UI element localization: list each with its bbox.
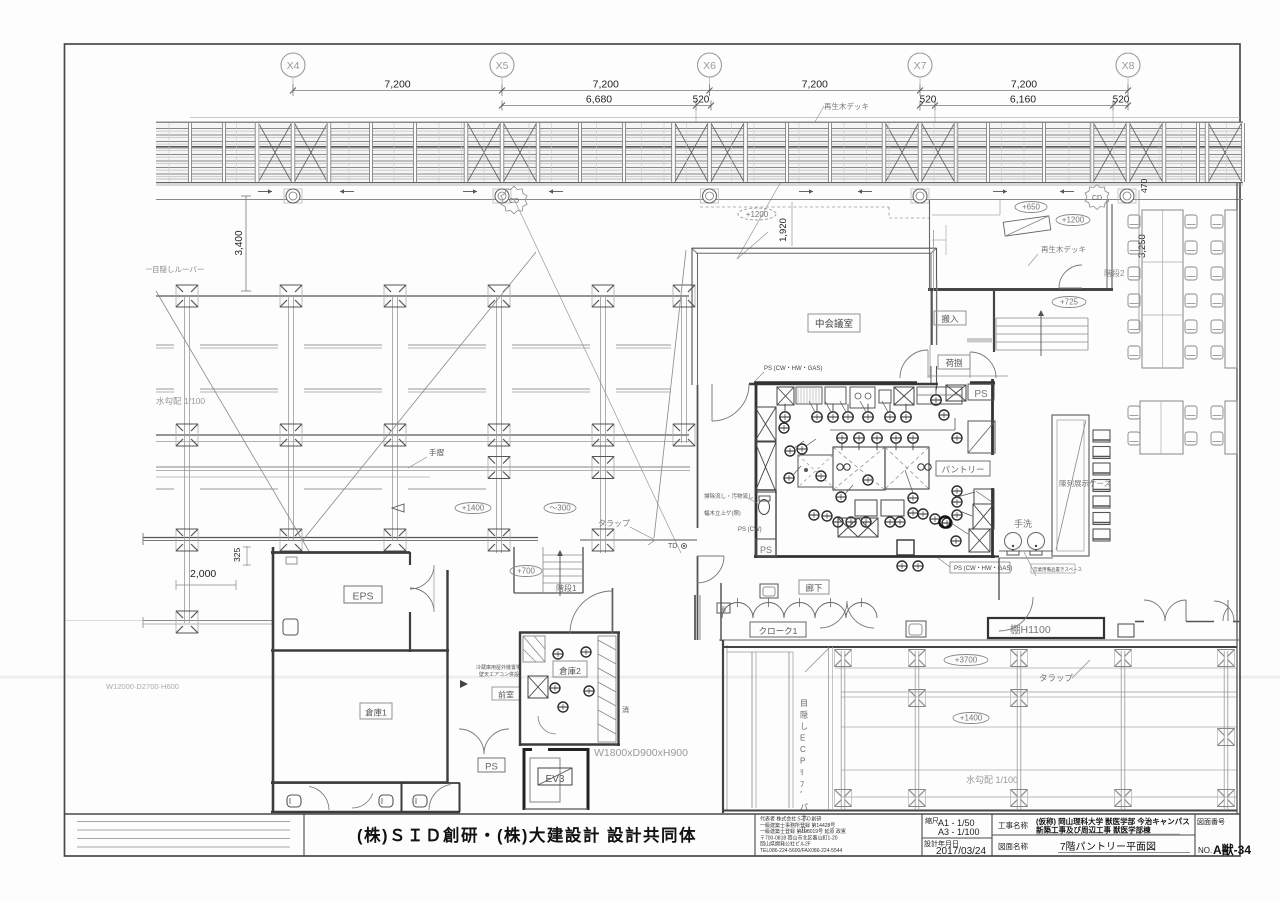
svg-text:3,400: 3,400 (234, 230, 245, 255)
lower terrace column Q12 (1115, 790, 1132, 807)
equipment symbol E33 (861, 517, 871, 527)
souko1 label (360, 703, 392, 719)
double door right bottom 1 (1144, 600, 1186, 621)
svg-text:+1400: +1400 (462, 504, 485, 513)
terrace column P6 (673, 285, 695, 307)
terrace-ECP boundary line (828, 647, 830, 810)
svg-text:+700: +700 (517, 567, 536, 576)
dimension line 7200 row (290, 85, 1131, 97)
chair R4 (1185, 241, 1197, 254)
pantry right wall upper (991, 379, 994, 455)
reizouko note (476, 664, 521, 678)
svg-text:+1200: +1200 (746, 210, 769, 219)
lower terrace top wall (723, 646, 1237, 648)
svg-text:手摺: 手摺 (429, 447, 444, 457)
chair L5 (1128, 267, 1140, 280)
equipment symbol E40 (897, 561, 907, 571)
drain cloud CD left (501, 186, 527, 214)
corridor wall left of stairs (931, 291, 933, 345)
svg-text:CD: CD (1092, 195, 1102, 202)
dining table T4 halfcol (1225, 401, 1237, 454)
svg-text:水勾配 1/100: 水勾配 1/100 (966, 774, 1018, 785)
corridor door arc bottom (697, 556, 724, 583)
svg-text:NO.: NO. (1198, 846, 1212, 855)
small square EPS (283, 619, 298, 635)
svg-text:PS (CW): PS (CW) (738, 527, 762, 533)
lower terrace column Q3 (1011, 650, 1028, 667)
svg-text:目: 目 (800, 699, 808, 708)
toilet door arc 2 (429, 784, 451, 810)
svg-text:C: C (800, 745, 806, 754)
pantry corridor door arc left (900, 350, 928, 378)
pantry left prep table (798, 455, 833, 487)
urinal U3 (413, 795, 427, 807)
toilet closet walls (756, 490, 776, 556)
pantry left shelving xboxes (755, 407, 776, 441)
zenshitsu label (492, 687, 520, 700)
svg-text:倉庫1: 倉庫1 (365, 708, 387, 718)
kettle pair 2 (918, 464, 931, 470)
chair L11 (1128, 346, 1140, 359)
label saisei deck 2 (1028, 244, 1086, 266)
toilet strip bottom wall (271, 811, 460, 814)
title block inner dividers (992, 834, 1195, 836)
chair T3R22 (1185, 432, 1197, 445)
chair T423 (1211, 406, 1223, 419)
chair R8 (1185, 294, 1197, 307)
chair R10 (1185, 320, 1197, 333)
grid bubble X4 (281, 53, 305, 91)
PS box bottom left (756, 539, 776, 556)
dining table T3 (1140, 401, 1183, 454)
souko1 right wall (446, 570, 448, 783)
souko2 top wall (519, 631, 620, 633)
small arrow mark (460, 680, 468, 688)
oval +725 (1052, 297, 1086, 308)
svg-text:営業用備品置きスペース: 営業用備品置きスペース (1033, 566, 1082, 573)
oval +300 corridor (544, 503, 576, 514)
svg-text:EPS: EPS (352, 591, 373, 603)
right side sink unit (974, 489, 994, 504)
svg-text:廊下: 廊下 (805, 583, 823, 593)
meeting room top wall (692, 248, 937, 253)
svg-text:X4: X4 (287, 60, 300, 72)
EPS label (344, 586, 382, 603)
svg-text:X6: X6 (703, 60, 716, 72)
oval 3700 (944, 655, 988, 666)
svg-text:+650: +650 (1022, 203, 1041, 212)
EPS right wall upper (409, 552, 411, 565)
lower terrace column Q4 (1115, 650, 1132, 667)
equipment symbol E31 (833, 517, 843, 527)
equipment symbol E30 (822, 511, 832, 521)
lower terrace bottom wall (723, 810, 1237, 812)
terrace column P5 (592, 285, 614, 307)
meeting room right wall lower (931, 366, 937, 389)
lower terrace column Q5 (1218, 650, 1235, 667)
terrace column P14 (592, 457, 614, 479)
chair S14 (1211, 241, 1223, 254)
drain cloud CD right (1085, 185, 1109, 210)
pantry label box (936, 461, 990, 476)
svg-text:1,920: 1,920 (778, 218, 789, 242)
svg-text:〜300: 〜300 (549, 504, 571, 513)
pantry corridor door arc right (970, 352, 996, 378)
PS label top right (968, 384, 994, 400)
EPS top wall (271, 551, 410, 554)
box small corridor2 (906, 621, 926, 637)
svg-text:搬入: 搬入 (941, 314, 959, 324)
lower terrace line y770 (841, 769, 1237, 771)
right deck inner lines (932, 200, 1000, 255)
cloak scallops (722, 598, 877, 618)
tana H1100 (988, 618, 1104, 638)
dark box dishwasher (897, 540, 914, 555)
equipment symbol E9 (837, 433, 847, 450)
svg-text:6,160: 6,160 (1010, 94, 1036, 106)
svg-text:E: E (800, 734, 805, 743)
pantry center table 1 (833, 447, 885, 490)
case chair 1 (1093, 430, 1110, 442)
diagonal hatch box right (968, 421, 995, 453)
ECP leader (805, 646, 831, 672)
svg-text:幅木立上ゲ(照): 幅木立上ゲ(照) (704, 509, 741, 517)
pantry equipment row top (777, 387, 962, 408)
souko2 right wall (617, 632, 619, 746)
corridor west wall lower (697, 556, 699, 640)
svg-text:タラップ: タラップ (598, 519, 630, 528)
terrace handrail line (156, 441, 689, 443)
terrace column P7 (176, 424, 198, 446)
right deck room left wall (930, 200, 934, 291)
pantry bottom wall (754, 555, 995, 558)
terrace column P8 (280, 424, 302, 446)
terrace column P13 (488, 457, 510, 479)
arrow left corridor (392, 504, 404, 512)
equipment symbol E20 (863, 475, 873, 485)
svg-text:TEL086-224-5600/FAX086-224-554: TEL086-224-5600/FAX086-224-5544 (760, 848, 843, 854)
meeting room right wall upper (931, 248, 937, 345)
terrace column P10 (488, 424, 510, 446)
range with double X (838, 518, 878, 537)
terrace column P12 (673, 424, 695, 446)
chair L9 (1128, 320, 1140, 333)
chair S15 (1211, 267, 1223, 280)
right xbox 2 (969, 529, 990, 552)
dimension line 6680/520 row (499, 101, 1131, 123)
terrace column P20 (176, 611, 198, 633)
case chair 7 (1093, 529, 1110, 541)
equipment symbol E6 (885, 404, 895, 422)
souko2 circles (553, 649, 563, 659)
round column at grid X6 (701, 189, 719, 203)
souko2 left wall (519, 632, 521, 746)
lower terrace column Q1 (835, 650, 852, 667)
svg-text:7階パントリー平面図: 7階パントリー平面図 (1060, 841, 1156, 853)
equipment symbol E5 (863, 404, 873, 422)
round column at grid X8 (1118, 189, 1136, 203)
dining table T2 halfcol (1225, 210, 1237, 368)
svg-text:ﾌ: ﾌ (800, 780, 804, 789)
svg-text:消: 消 (720, 606, 726, 614)
equipment symbol E34 (885, 517, 895, 527)
drawing number cell (1197, 818, 1251, 857)
hanyu label box (934, 311, 966, 325)
EV3 shaft walls (524, 748, 588, 810)
lower terrace line y727 (841, 726, 1237, 728)
rouka label (799, 580, 829, 594)
PS CW HW GAS top label (754, 366, 822, 382)
equipment symbol E10 (854, 433, 864, 450)
terrace column P11 (592, 424, 614, 446)
lower terrace column Q9 (835, 790, 852, 807)
svg-text:(株)ＳＩＤ創研・(株)大建設計 設計共同体: (株)ＳＩＤ創研・(株)大建設計 設計共同体 (357, 825, 697, 845)
souko2 label (553, 661, 587, 677)
title block top line (65, 813, 1241, 815)
EPS bottom wall (271, 649, 449, 651)
equipment symbol E41 (913, 561, 923, 571)
lower terrace column Q8 (1218, 729, 1235, 746)
terrace bottom line (143, 620, 272, 622)
wall segments between doors (1135, 621, 1144, 623)
EPS double door (410, 565, 434, 612)
svg-text:再生木デッキ: 再生木デッキ (1041, 244, 1086, 254)
meeting room bottom wall (749, 383, 938, 385)
svg-text:X7: X7 (914, 60, 927, 72)
terrace diagonal D1 (156, 291, 310, 553)
svg-text:A3 - 1/100: A3 - 1/100 (938, 827, 980, 837)
xbox right top (946, 385, 966, 401)
svg-text:縮尺: 縮尺 (925, 816, 939, 825)
terrace column P19 (592, 529, 614, 551)
equipment symbol E32 (846, 517, 856, 527)
grid bubble X8 (1116, 53, 1140, 91)
oval +650 (1015, 202, 1047, 213)
toilet fixture (759, 496, 771, 515)
chair L3 (1128, 241, 1140, 254)
svg-text:中会議室: 中会議室 (815, 318, 853, 330)
svg-text:PS: PS (974, 389, 988, 400)
terrace column vertical lines (185, 296, 687, 623)
cloak door pair left (820, 601, 874, 628)
equipment symbol E35 (895, 517, 905, 527)
equipment symbol E12 (891, 433, 901, 450)
recycled wood deck band (156, 118, 1243, 184)
basin leader (1024, 552, 1036, 576)
case chair 3 (1093, 463, 1110, 475)
equipment symbol E7 (901, 404, 911, 422)
svg-text:7,200: 7,200 (384, 79, 410, 91)
equipment symbol E22 (939, 410, 949, 420)
pantry right wall lower (991, 488, 994, 558)
right xbox 1 (973, 504, 994, 529)
lower terrace column Q6 (909, 690, 926, 707)
meeting room label (808, 314, 860, 332)
svg-text:7,200: 7,200 (593, 79, 619, 91)
svg-text:2,000: 2,000 (190, 568, 216, 580)
oval +700 (510, 566, 542, 577)
lower terrace column Q13 (1218, 790, 1235, 807)
grid bubble X6 (698, 53, 722, 91)
svg-text:隠: 隠 (800, 710, 808, 720)
dim 2000 (176, 568, 236, 590)
svg-text:再生木デッキ: 再生木デッキ (824, 101, 869, 111)
equipment symbol E37 (918, 509, 928, 519)
souko2 corridor wall (612, 588, 614, 633)
EPS right wall lower (409, 612, 411, 652)
dim 1920 rotated (778, 202, 792, 246)
terrace column P15 (176, 529, 198, 551)
lower terrace column Q11 (1011, 790, 1028, 807)
dim 3400 (234, 196, 251, 291)
oval +1200 right (1056, 215, 1090, 226)
equipment symbol E19 (836, 492, 846, 502)
terrace south wall (143, 537, 538, 539)
svg-text:520: 520 (693, 95, 710, 106)
svg-text:7,200: 7,200 (802, 79, 828, 91)
equipment symbol E29 (809, 510, 819, 520)
display case (1052, 415, 1089, 556)
svg-text:〒700-0818 岡山市北区蕃山町1-20: 〒700-0818 岡山市北区蕃山町1-20 (760, 834, 838, 841)
svg-text:325: 325 (232, 548, 242, 562)
svg-text:W1800xD900xH900: W1800xD900xH900 (594, 747, 688, 759)
label mekakushi louver (146, 264, 204, 274)
deck slanted box (1003, 216, 1051, 236)
leader to toilet (744, 496, 757, 503)
wall seg below washcounter (998, 558, 1000, 600)
svg-text:棚H1100: 棚H1100 (1010, 623, 1051, 636)
wall stub x697 lower (694, 595, 696, 640)
svg-text:X8: X8 (1122, 60, 1135, 72)
wall segment right of pantry bottom (995, 556, 999, 558)
equipment symbol E1 (780, 404, 790, 422)
chair T3L19 (1128, 406, 1140, 419)
building west wall (272, 547, 275, 813)
ECP panel text vertical (800, 699, 808, 835)
svg-text:手洗: 手洗 (1014, 518, 1032, 529)
svg-text:荷捌: 荷捌 (945, 358, 962, 368)
souko2 xbox (528, 676, 548, 698)
EV3 label (538, 768, 572, 785)
terrace column P4 (488, 285, 510, 307)
louver slat row 1 (156, 345, 671, 348)
svg-text:+3700: +3700 (955, 656, 978, 665)
equipment symbol E11 (872, 433, 882, 450)
svg-text:X5: X5 (496, 60, 509, 72)
terrace diagonal D3 (654, 250, 686, 538)
round column at grid X5 (493, 189, 511, 203)
svg-text:ﾘ: ﾘ (800, 768, 804, 777)
box small corridor (760, 584, 778, 598)
double door right bottom 2 (1214, 601, 1234, 621)
project name cell (998, 816, 1190, 835)
svg-text:PS (CW・HW・GAS): PS (CW・HW・GAS) (954, 566, 1012, 572)
strip below deck (156, 185, 1243, 200)
svg-text:岡山県開発公社ビル2F: 岡山県開発公社ビル2F (760, 841, 811, 848)
terrace building edge double line (156, 466, 690, 468)
equipment symbol E21 (908, 493, 918, 503)
corridor west wall (697, 385, 699, 528)
chair R12 (1185, 346, 1197, 359)
svg-text:+1400: +1400 (960, 714, 983, 723)
svg-text:冷蔵庫用屋外機置場: 冷蔵庫用屋外機置場 (476, 664, 521, 671)
PS CW HW GAS bottom label (938, 558, 1012, 573)
dining table T1 (1142, 210, 1183, 368)
souko2 inner door arc (538, 716, 556, 734)
lower terrace deck line pair (841, 691, 1237, 693)
right deck room bottom wall (928, 288, 1113, 291)
dining right border wall (1236, 183, 1238, 814)
equipment symbol E25 (952, 497, 962, 507)
round column at grid X7 (911, 189, 929, 203)
wash basin 2 (1028, 533, 1045, 556)
svg-text:階段1: 階段1 (556, 583, 577, 593)
equip note label (1031, 564, 1082, 573)
svg-text:一級建築士事務所登録 第14428号: 一級建築士事務所登録 第14428号 (760, 822, 835, 829)
terrace louver top line (156, 295, 689, 297)
tarappu label mid (598, 519, 655, 545)
TD mark (668, 543, 687, 550)
stair1 enclosure (514, 547, 583, 596)
svg-text:掃除流し・汚物流し: 掃除流し・汚物流し (704, 492, 754, 500)
chair L1 (1128, 215, 1140, 228)
meeting room door arc (712, 384, 749, 421)
svg-text:W12000·D2700·H600: W12000·D2700·H600 (106, 682, 179, 691)
terrace line y477 (156, 476, 430, 478)
lower terrace column Q7 (1011, 690, 1028, 707)
svg-text:+1200: +1200 (1062, 216, 1085, 225)
deck band posts and X braces (169, 123, 1245, 182)
svg-text:消: 消 (622, 705, 629, 714)
chair R6 (1185, 267, 1197, 280)
scan artifact line (64, 620, 160, 622)
svg-text:TD: TD (668, 543, 677, 550)
lower terrace column Q2 (909, 650, 926, 667)
corridor double door (459, 729, 509, 754)
signature lines (77, 822, 290, 848)
equipment symbol E39 (939, 516, 950, 527)
corridor south wall (719, 639, 1240, 641)
terrace line row2 (156, 434, 689, 436)
pantry circle leaders (793, 401, 975, 534)
dim 325 (232, 546, 251, 566)
svg-text:図面番号: 図面番号 (1197, 818, 1225, 826)
lower terrace line y668 (835, 667, 1237, 669)
wash basin 1 (1005, 533, 1022, 556)
right deck room right wall (1107, 200, 1112, 291)
equipment symbol E15 (785, 446, 795, 456)
small tables bottom (855, 500, 877, 516)
oval +1200 left deck (738, 208, 776, 220)
chair S13 (1211, 215, 1223, 228)
chair R2 (1185, 215, 1197, 228)
svg-text:壁天エアコン併設: 壁天エアコン併設 (479, 671, 519, 678)
oval +1400 corridor (455, 503, 491, 514)
title block verticals (304, 814, 1195, 856)
equipment symbol E28 (951, 536, 961, 546)
leader line deck label (737, 106, 824, 259)
address block (760, 816, 846, 855)
door leaf marks (1185, 600, 1187, 621)
svg-text:PS: PS (485, 762, 498, 773)
lower terrace line y797 (841, 796, 1237, 798)
equipment symbol E13 (908, 433, 918, 450)
door threshold hatch (967, 338, 992, 343)
wash basin counter (999, 550, 1053, 552)
urinal U2 (379, 795, 393, 807)
svg-text:P: P (800, 757, 805, 766)
right deck door arc (1059, 265, 1082, 288)
